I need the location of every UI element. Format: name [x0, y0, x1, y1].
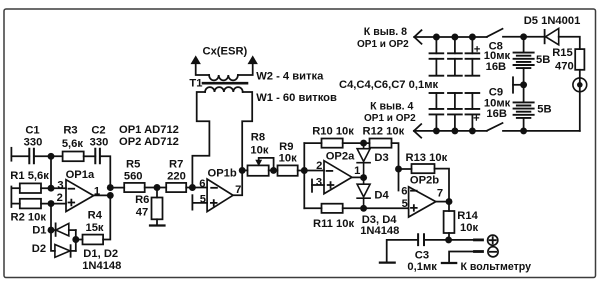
svg-text:7: 7 [235, 184, 241, 196]
svg-text:К выв. 8: К выв. 8 [364, 26, 407, 38]
svg-text:R2 10к: R2 10к [11, 211, 47, 223]
bottom rail arrow (to pin 4) [414, 124, 421, 138]
plus terminal tick [475, 238, 483, 241]
svg-text:0,1мк: 0,1мк [407, 261, 437, 273]
wire diode right vertical [75, 230, 77, 251]
op-amp U1b OP1b [207, 179, 233, 212]
svg-text:R4: R4 [88, 210, 103, 222]
R8 R9 junction dot [270, 167, 277, 174]
svg-text:D2: D2 [32, 243, 46, 255]
wire bottom rail right segment [503, 130, 580, 132]
svg-text:R3: R3 [63, 125, 77, 137]
transformer T1 core [203, 82, 247, 85]
svg-text:C2: C2 [91, 125, 105, 137]
svg-text:5,6к: 5,6к [62, 138, 84, 150]
svg-text:ОР1 и ОР2: ОР1 и ОР2 [364, 113, 416, 124]
wire R13 left lead [399, 168, 412, 170]
wire bottom rail [414, 130, 487, 132]
wire plus output line [449, 239, 475, 241]
wire R8 to R9 [269, 169, 278, 171]
switch blade (bottom rail) [487, 123, 503, 131]
svg-text:330: 330 [90, 137, 109, 149]
svg-text:R1 5,6к: R1 5,6к [10, 170, 49, 182]
svg-text:560: 560 [124, 171, 143, 183]
svg-text:К вольтметру: К вольтметру [461, 261, 532, 273]
wire C2 to feedback riser [100, 156, 110, 187]
svg-text:W2 - 4 витка: W2 - 4 витка [256, 71, 324, 83]
minus terminal circle [488, 247, 498, 257]
diode D2 (points right) [55, 245, 70, 258]
svg-text:16В: 16В [486, 108, 507, 120]
svg-text:1: 1 [354, 165, 360, 177]
diode D1 (points left) [55, 223, 57, 236]
wire R5 line from riser [110, 187, 124, 189]
svg-text:C3: C3 [415, 249, 429, 261]
wire C3 left lead to ground [387, 240, 418, 263]
svg-text:R14: R14 [457, 210, 478, 222]
svg-text:R13 10к: R13 10к [406, 152, 448, 164]
wire D1 left stub [51, 229, 56, 231]
svg-text:D5 1N4001: D5 1N4001 [524, 15, 581, 27]
resistor R14 [444, 211, 455, 233]
op-amp OP1a plus sign [69, 200, 75, 206]
wire C1 to node [34, 155, 63, 157]
wire W2 right lead [238, 63, 253, 76]
op-amp OP2b minus sign [411, 190, 417, 192]
resistor R2 [20, 199, 41, 209]
op-amp OP2a minus sign [327, 170, 333, 172]
capacitor C5 column [429, 92, 445, 94]
pin6 node dot [189, 184, 196, 191]
wire R4 left lead [76, 239, 83, 241]
wire R1 left lead [11, 187, 19, 189]
wire R14 bottom lead [448, 233, 450, 240]
svg-text:470: 470 [555, 61, 574, 73]
wire feedback riser down to R4 [103, 195, 110, 239]
wire D2 right stub [71, 250, 76, 252]
svg-text:OP2b: OP2b [410, 175, 439, 187]
top rail arrow (to pin 8) [414, 30, 421, 44]
svg-text:10к: 10к [250, 144, 268, 156]
OP2b output node dot [446, 198, 453, 205]
svg-text:ОР1 и ОР2: ОР1 и ОР2 [357, 39, 409, 50]
capacitor C4 column [435, 37, 437, 53]
svg-text:R6: R6 [135, 194, 149, 206]
R4 tap dot [72, 236, 79, 243]
wire R10 to D3 node [343, 142, 370, 144]
resistor R13 [412, 164, 435, 173]
capacitor C3 [418, 233, 424, 246]
wire OP2a pin3 [312, 184, 324, 186]
svg-text:330: 330 [24, 137, 43, 149]
wire top rail right segment [503, 36, 545, 38]
svg-text:OP2 AD712: OP2 AD712 [119, 136, 179, 148]
wire R7 to pin6 node [186, 187, 207, 189]
minus terminal tick [475, 250, 483, 253]
R6 tap dot [154, 184, 161, 191]
mid tap dot [520, 81, 527, 88]
node A junction dot [48, 153, 55, 160]
svg-text:OP1a: OP1a [66, 169, 95, 181]
wire C1 left lead [11, 155, 29, 157]
wire R13 to output node [435, 169, 450, 202]
wire OP1b output up to R8 node [233, 170, 242, 195]
wire D5 to corner [559, 37, 580, 49]
wire battery mid lead [523, 68, 525, 102]
svg-text:6: 6 [401, 186, 407, 198]
resistor R1 [20, 183, 41, 193]
Cx arrow left (solid) [191, 56, 200, 63]
mid tap terminal bar [512, 77, 514, 92]
C8 plus sign [475, 47, 479, 51]
wire R6 bottom lead [156, 219, 158, 225]
svg-text:10к: 10к [279, 152, 297, 164]
svg-text:6: 6 [199, 178, 205, 190]
svg-text:R5: R5 [126, 159, 140, 171]
riser node dot [301, 167, 308, 174]
OP2a output node dot [360, 174, 367, 181]
wire top rail [414, 36, 487, 38]
bottom rail dots [433, 127, 440, 134]
wire R15 to current probe [579, 70, 581, 131]
svg-text:Cx(ESR): Cx(ESR) [203, 46, 248, 58]
svg-text:5: 5 [200, 193, 206, 205]
D4 bottom node dot [360, 205, 367, 212]
resistor R7 [166, 183, 186, 192]
svg-text:2: 2 [57, 192, 63, 204]
feedback riser dots [107, 184, 114, 191]
resistor R6 [152, 198, 163, 220]
R8 node dot [239, 167, 246, 174]
op-amp U1a OP1a [66, 180, 94, 212]
wire OP2b output [436, 201, 449, 203]
capacitor C7 column [447, 92, 463, 94]
op-amp OP1b plus sign [211, 200, 217, 206]
capacitor C9 column (electrolytic) [465, 92, 481, 94]
resistor R11 [322, 204, 343, 213]
svg-text:D3: D3 [374, 152, 388, 164]
svg-text:3: 3 [316, 176, 322, 188]
top rail dots [433, 34, 440, 41]
svg-text:220: 220 [167, 171, 186, 183]
op-amp U2b OP2b [409, 187, 436, 217]
resistor R15 [575, 49, 584, 70]
resistor R12 [370, 139, 392, 148]
resistor R9 [278, 165, 298, 175]
svg-text:3: 3 [57, 179, 63, 191]
capacitor C8 column (electrolytic) [471, 37, 473, 53]
wire bottom line R11 [304, 207, 321, 209]
R13 node dot [395, 166, 402, 173]
svg-text:D1: D1 [32, 225, 46, 237]
wire OP2a riser vertical [303, 143, 305, 208]
trimmer R8 wiper arrow [259, 158, 274, 170]
svg-text:К выв. 4: К выв. 4 [370, 100, 413, 112]
wire R8 left lead [242, 169, 247, 171]
wire W2 left lead [196, 63, 209, 76]
transformer T1 winding W2 (3 arcs, bulge down) [209, 75, 238, 80]
wire W1 left leg [192, 92, 209, 188]
svg-text:D1, D2: D1, D2 [83, 248, 118, 260]
transformer T1 winding W1 (4 arcs, bulge up) [205, 87, 243, 92]
battery GB1 5V [513, 53, 535, 69]
resistor R5 [124, 183, 145, 192]
svg-text:W1 - 60 витков: W1 - 60 витков [256, 92, 337, 104]
diode D3 (points down) [357, 143, 370, 178]
pin2 node dot [48, 200, 55, 207]
svg-text:R9: R9 [279, 141, 293, 153]
wire node A down to pin3 [50, 156, 52, 188]
battery GB2 5V [513, 102, 535, 118]
ground under R6 [150, 224, 165, 226]
wire R2 to pin2 node [41, 203, 66, 205]
Cx arrow right (solid) [248, 56, 257, 63]
svg-text:R10 10к: R10 10к [312, 126, 354, 138]
svg-text:15к: 15к [85, 222, 103, 234]
wire mid tap [513, 84, 524, 86]
input terminal bar (R1 R2 left) [10, 187, 12, 208]
svg-text:10к: 10к [460, 222, 478, 234]
pin3 node dot [48, 185, 55, 192]
diode D4 (points down) [357, 178, 370, 209]
svg-text:T1: T1 [189, 78, 202, 90]
OP1b pin5 terminal bar [191, 195, 193, 209]
wire R9 to riser [298, 170, 324, 172]
input terminal bar (C1 left) [10, 148, 12, 161]
svg-text:R7: R7 [169, 159, 183, 171]
svg-text:C1: C1 [25, 125, 39, 137]
C9 plus sign [474, 116, 478, 120]
svg-text:7: 7 [437, 188, 443, 200]
output node dot [445, 236, 452, 243]
svg-text:R12 10к: R12 10к [363, 126, 405, 138]
svg-text:OP2a: OP2a [326, 151, 355, 163]
D3 top node dot [360, 140, 367, 147]
plus terminal circle [488, 235, 498, 245]
svg-text:R11 10к: R11 10к [313, 218, 354, 230]
capacitor C2 [95, 148, 100, 165]
wire battery bottom lead [523, 118, 525, 131]
current probe circle [573, 78, 587, 92]
op-amp OP1b minus sign [211, 187, 217, 189]
wire R3 to C2 [84, 155, 96, 157]
wire OP2a output [352, 176, 364, 178]
svg-text:2: 2 [316, 160, 322, 172]
ground under C3 [380, 262, 395, 264]
svg-text:1N4148: 1N4148 [82, 260, 121, 272]
switch blade (top rail) [487, 29, 503, 37]
op-amp U2a OP2a [324, 161, 352, 194]
op-amp OP1a minus sign [69, 188, 75, 190]
svg-text:OP1 AD712: OP1 AD712 [119, 124, 179, 136]
wire R14 top lead [448, 202, 450, 211]
diode D5 (points left) [544, 30, 546, 43]
resistor R10 [322, 139, 343, 148]
svg-text:R8: R8 [251, 132, 265, 144]
svg-text:1: 1 [94, 186, 100, 198]
resistor R4 [83, 235, 104, 245]
svg-text:5В: 5В [537, 104, 551, 116]
wire top line to R10 [304, 142, 321, 144]
resistor R3 [63, 152, 84, 162]
op-amp OP2b plus sign [411, 205, 417, 211]
wire R2 left lead [11, 203, 19, 205]
svg-text:D4: D4 [374, 189, 389, 201]
wire OP1a output [94, 194, 111, 196]
trimmer R8 body [248, 165, 269, 175]
wire C3 right lead [424, 239, 449, 241]
wire D1 right stub [69, 229, 76, 231]
svg-text:OP1b: OP1b [208, 168, 237, 180]
svg-text:16В: 16В [486, 61, 507, 73]
OP2a pin3 terminal bar [311, 180, 313, 192]
svg-text:5В: 5В [536, 54, 550, 66]
svg-text:D3, D4: D3, D4 [362, 214, 398, 226]
wire OP1b pin5 [192, 202, 207, 204]
capacitor C1 [29, 148, 34, 165]
svg-text:47: 47 [136, 206, 148, 218]
wire W1 right leg [242, 92, 252, 170]
svg-text:C4,C4,C6,C7 0,1мк: C4,C4,C6,C7 0,1мк [339, 79, 438, 91]
wire pin2 node down to diodes [51, 204, 55, 251]
capacitor C6 column [454, 37, 456, 53]
wire R11 to OP2b pin5 [343, 207, 409, 209]
wire minus output line [449, 252, 474, 262]
svg-text:1N4148: 1N4148 [360, 225, 399, 237]
ground under minus line [442, 262, 456, 264]
wire R5 to R7 [145, 187, 167, 189]
op-amp OP2a plus sign [328, 182, 334, 188]
svg-text:5: 5 [402, 198, 408, 210]
diode D1 node dot [48, 227, 55, 234]
wire battery top lead [523, 37, 525, 53]
wire R12 to OP2b riser [392, 143, 399, 190]
wire R1 to pin3 node [41, 187, 66, 189]
wire R6 top lead [156, 188, 158, 198]
svg-text:R15: R15 [552, 47, 573, 59]
